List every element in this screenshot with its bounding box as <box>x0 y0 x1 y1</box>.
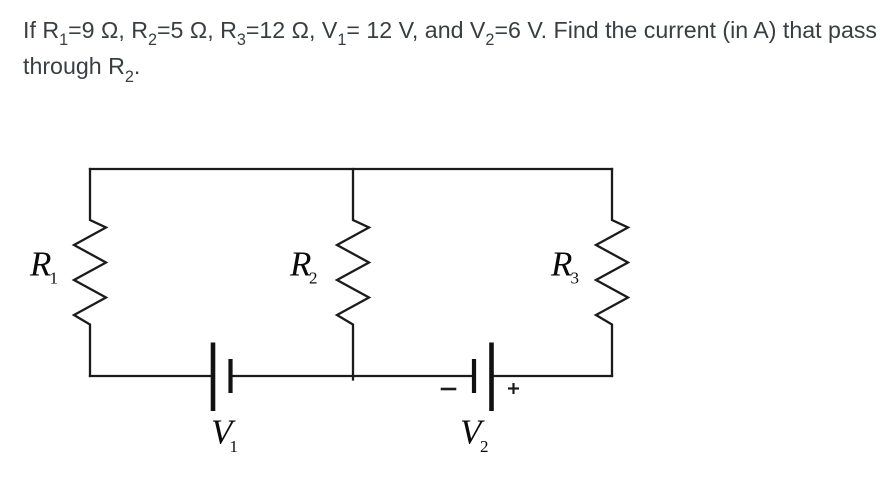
svg-text:2: 2 <box>309 269 318 288</box>
svg-text:2: 2 <box>480 437 489 456</box>
svg-text:1: 1 <box>230 437 239 456</box>
svg-text:R: R <box>550 245 572 284</box>
svg-text:1: 1 <box>50 269 59 288</box>
svg-text:R: R <box>29 245 51 284</box>
svg-text:3: 3 <box>571 269 580 288</box>
